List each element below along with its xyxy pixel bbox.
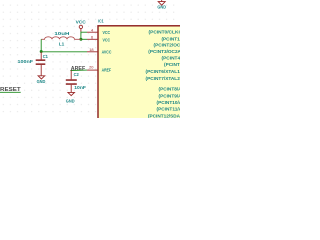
wire VCC to pin 6 (81, 38, 87, 40)
svg-text:VCC: VCC (103, 37, 111, 42)
junction node VCC/L1 (79, 38, 82, 41)
pin 4 VCC (87, 28, 111, 36)
svg-text:(PCINT6/XTAL1/TOSC1)PB6: (PCINT6/XTAL1/TOSC1)PB6 (146, 69, 181, 74)
svg-text:(PCINT11/ADC3)PC3: (PCINT11/ADC3)PC3 (157, 107, 181, 112)
wire VCC to pin 4 (81, 31, 87, 33)
svg-text:C2: C2 (74, 72, 80, 77)
junction node AVCC/C1 (40, 50, 43, 53)
svg-text:C1: C1 (43, 54, 49, 59)
svg-text:(PCINT4/MISO)PB4: (PCINT4/MISO)PB4 (162, 56, 181, 61)
pin 6 VCC (87, 35, 111, 43)
svg-text:GND: GND (66, 98, 75, 103)
wire L1 down to C1 (40, 39, 42, 52)
capacitor C2 10nF (66, 70, 87, 92)
IC U1 ATmega328 body (98, 26, 183, 122)
svg-text:(PCINT3/OC2A/MOSI)PB3: (PCINT3/OC2A/MOSI)PB3 (148, 49, 180, 54)
svg-text:6: 6 (91, 35, 93, 40)
pin 20 AREF (87, 64, 111, 72)
svg-text:AREF: AREF (102, 68, 112, 73)
svg-text:(PCINT7/XTAL2/TOSC2)PB7: (PCINT7/XTAL2/TOSC2)PB7 (146, 76, 181, 81)
svg-text:(PCINT9/ADC1)PC1: (PCINT9/ADC1)PC1 (159, 93, 181, 98)
wire junction to AVCC pin (41, 51, 87, 53)
wire VCC stem down to junction (80, 32, 82, 40)
svg-text:GND: GND (37, 79, 46, 84)
inductor L1 10uH (41, 31, 81, 46)
svg-text:GND: GND (157, 5, 166, 10)
svg-text:IC1: IC1 (98, 18, 104, 23)
ground symbol top right (157, 0, 166, 10)
svg-text:VCC: VCC (76, 19, 87, 24)
svg-text:L1: L1 (59, 41, 65, 46)
svg-text:(PCINT0/CLKO/ICP1)PB0: (PCINT0/CLKO/ICP1)PB0 (149, 30, 181, 35)
svg-text:10nF: 10nF (74, 85, 86, 90)
capacitor C1 100nF (18, 52, 49, 76)
wire AREF label to pin 20 (70, 69, 87, 71)
svg-text:(PCINT10/ADC2)PC2: (PCINT10/ADC2)PC2 (157, 100, 181, 105)
svg-text:VCC: VCC (103, 30, 111, 35)
svg-text:(PCINT8/ADC0)PC0: (PCINT8/ADC0)PC0 (159, 87, 181, 92)
ground symbol below C2 (66, 92, 75, 103)
svg-text:10uH: 10uH (54, 31, 69, 36)
svg-text:(PCINT5/SCK)PB5: (PCINT5/SCK)PB5 (164, 62, 180, 67)
pin 18 AVCC (87, 47, 112, 54)
power symbol VCC (76, 19, 87, 31)
svg-text:(PCINT12/SDA/ADC4)PC4: (PCINT12/SDA/ADC4)PC4 (148, 114, 180, 119)
wire RESET (0, 91, 21, 93)
ground symbol below C1 (37, 76, 46, 84)
svg-text:100nF: 100nF (18, 59, 34, 64)
svg-text:(PCINT2/OC1B/SS)PB2: (PCINT2/OC1B/SS)PB2 (154, 43, 181, 48)
svg-text:AVCC: AVCC (102, 50, 112, 55)
svg-text:18: 18 (89, 47, 93, 52)
svg-text:(PCINT1/OC1A)PB1: (PCINT1/OC1A)PB1 (162, 36, 181, 41)
